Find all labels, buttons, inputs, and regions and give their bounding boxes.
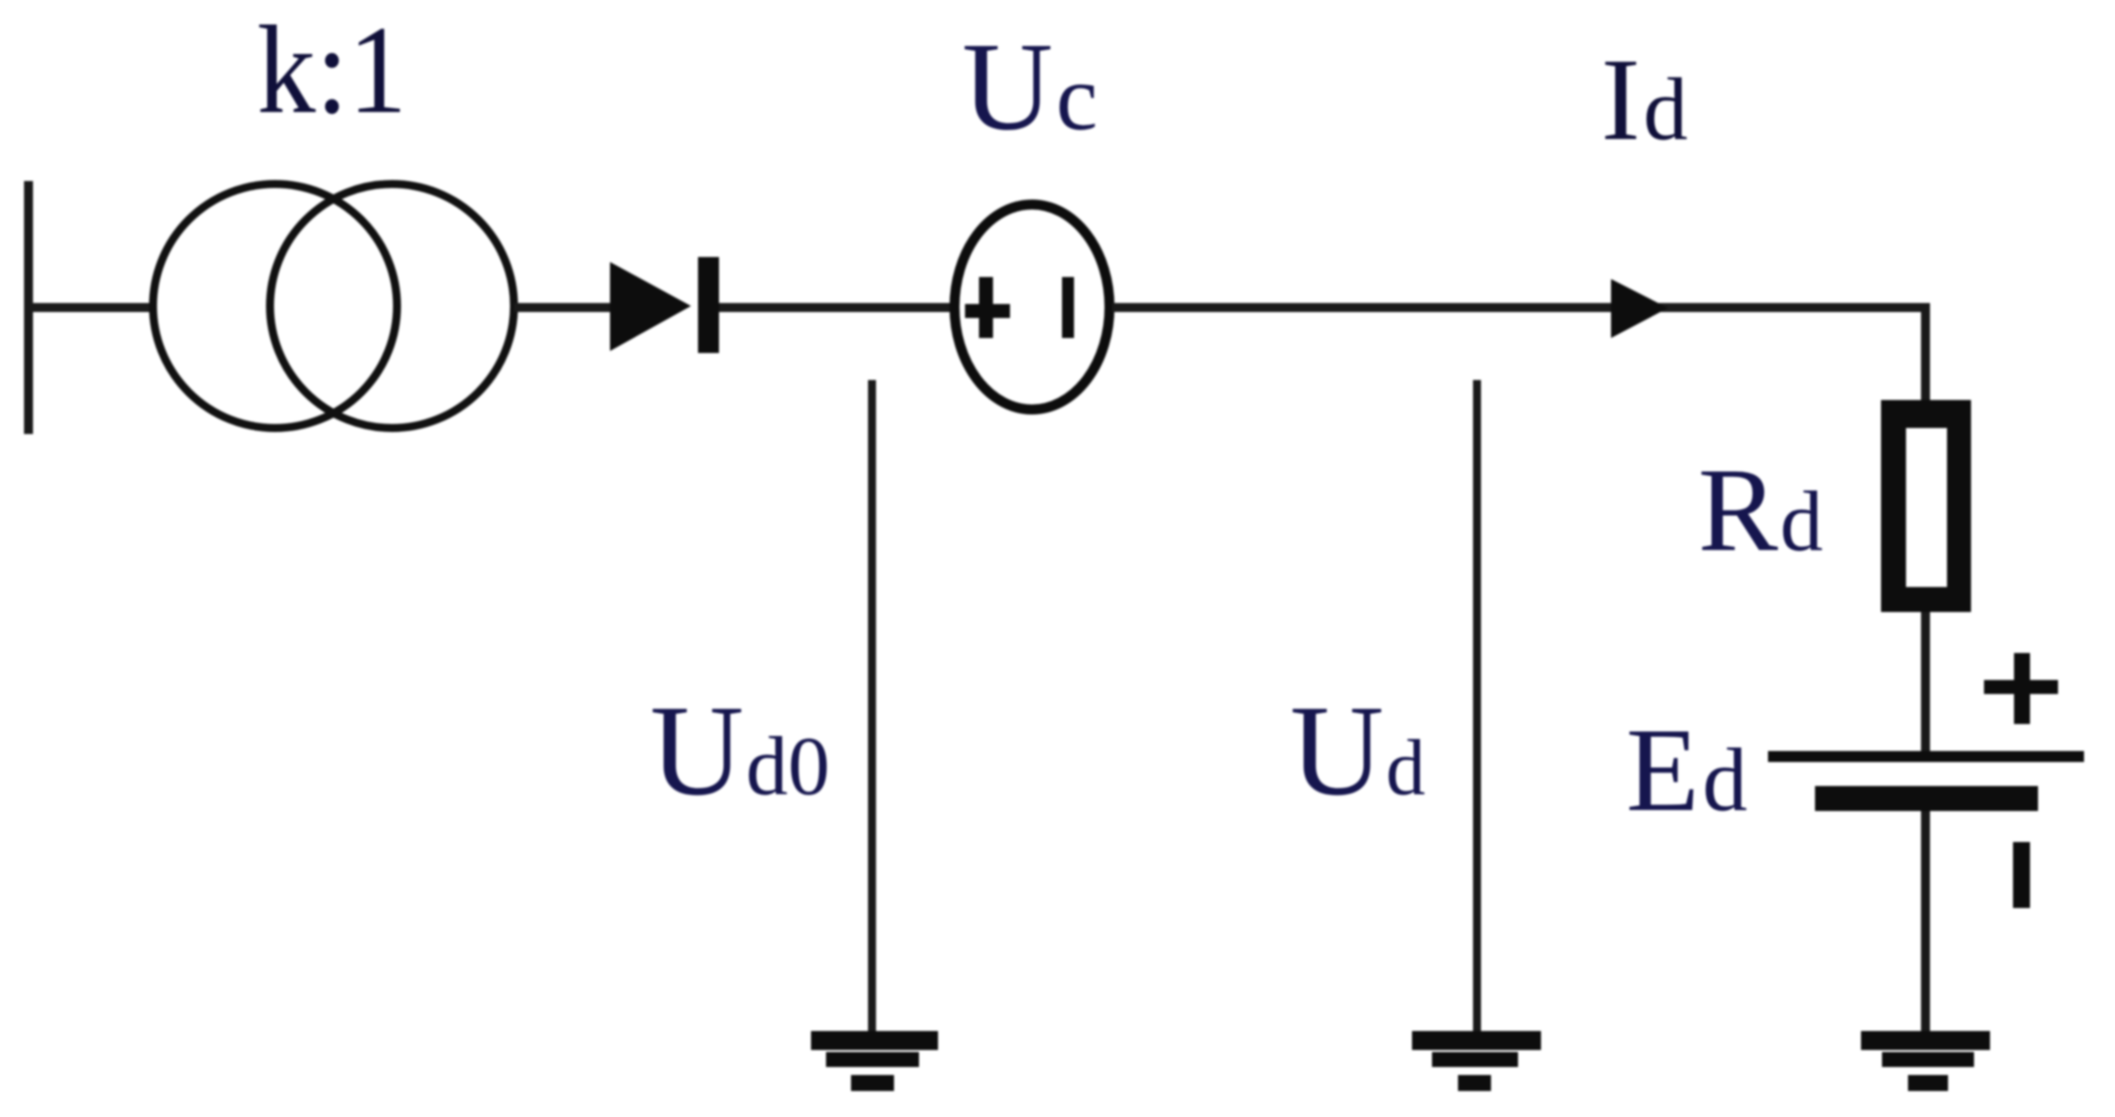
- ground symbol (load return): [1861, 1031, 1990, 1050]
- wire Uc to corner: [1112, 303, 1930, 312]
- measurement line Ud0: [868, 380, 876, 1035]
- transformer T primary winding: [153, 184, 397, 428]
- voltage source Uc (ellipse): [955, 205, 1110, 410]
- ground symbol (Ud reference): [1412, 1031, 1541, 1050]
- wire diode to source Uc: [719, 303, 952, 312]
- wire resistor to battery: [1921, 612, 1930, 753]
- measurement line Ud: [1473, 380, 1481, 1035]
- battery Ed short thick plate: [1815, 786, 2038, 811]
- transformer T secondary winding: [270, 184, 514, 428]
- minus mark inside Uc (vertical bar): [1062, 277, 1074, 338]
- svg-text:k:1: k:1: [257, 1, 407, 140]
- diode V cathode bar: [698, 257, 719, 353]
- ground symbol (Ud0 reference): [811, 1031, 938, 1050]
- wire bus to transformer: [33, 303, 152, 312]
- wire transformer to diode: [514, 303, 610, 312]
- current direction arrow Id: [1611, 279, 1668, 338]
- battery Ed long plate: [1768, 751, 2084, 762]
- minus polarity mark of Ed (vertical bar): [2013, 842, 2030, 908]
- diode V anode triangle: [610, 262, 691, 351]
- wire battery to ground: [1921, 811, 1930, 1036]
- bus bar (AC supply): [24, 181, 33, 434]
- wire corner down to resistor: [1921, 307, 1930, 407]
- resistor Rd body (thick outline): [1881, 400, 1971, 612]
- plus mark inside Uc: [965, 304, 1010, 318]
- plus polarity mark of Ed: [1984, 680, 2058, 694]
